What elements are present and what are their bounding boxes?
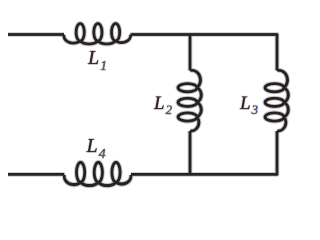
label L4	[87, 136, 106, 156]
label L2	[154, 94, 172, 113]
label L3	[240, 94, 258, 113]
main ink pass	[8, 24, 288, 186]
label L1	[88, 48, 107, 68]
soft halo pass	[8, 24, 288, 186]
